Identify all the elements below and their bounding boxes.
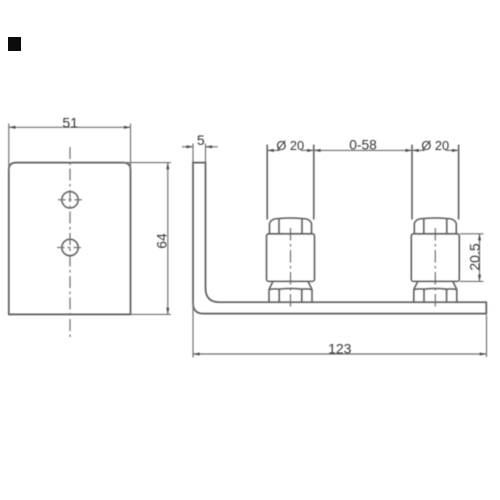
svg-text:Ø 20: Ø 20 <box>276 138 304 153</box>
svg-text:64: 64 <box>154 233 170 249</box>
svg-text:5: 5 <box>197 132 205 148</box>
svg-text:0-58: 0-58 <box>349 138 377 153</box>
svg-text:Ø 20: Ø 20 <box>421 138 449 153</box>
svg-text:123: 123 <box>328 340 352 356</box>
svg-text:20.5: 20.5 <box>466 243 482 270</box>
svg-text:51: 51 <box>62 115 78 131</box>
